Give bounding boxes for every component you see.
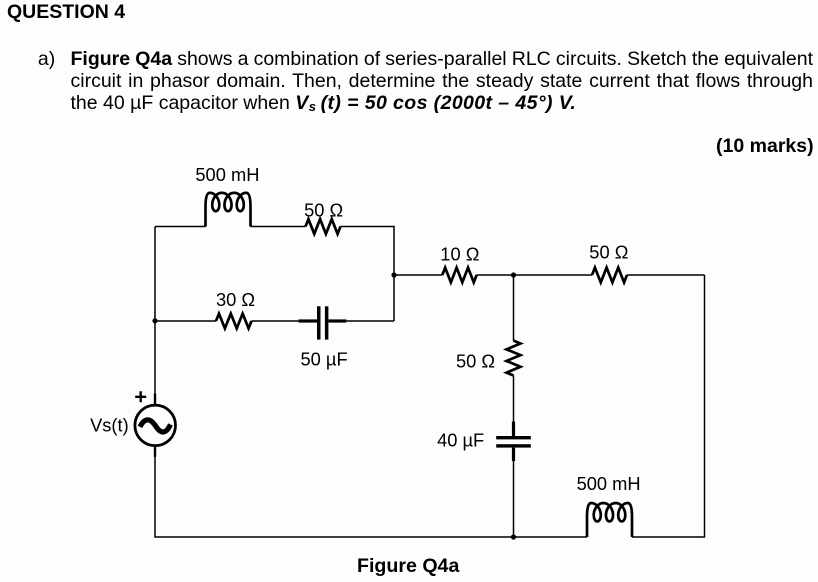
wire below 40uF capacitor to bottom node: [513, 461, 515, 537]
wire left vertical upper: [154, 227, 156, 406]
wire middle branch left: [155, 320, 216, 322]
svg-text:30 Ω: 30 Ω: [216, 289, 255, 310]
wire node B down to vertical resistor: [513, 275, 515, 341]
ac source Vs circle: [135, 405, 176, 446]
item letter a): [38, 48, 55, 70]
capacitor 40 uF plate bottom: [496, 444, 531, 447]
marks label: [716, 135, 814, 157]
svg-text:50 Ω: 50 Ω: [304, 200, 343, 221]
capacitor 40 uF lead top: [512, 422, 515, 437]
wire right top toward 50 ohm: [627, 274, 705, 276]
paragraph line 1: [71, 48, 814, 70]
wire left vertical lower and bottom left: [155, 446, 587, 537]
node A junction dot: [391, 272, 396, 277]
figure caption Figure Q4a: [357, 555, 459, 577]
paragraph line 2: [71, 70, 814, 92]
node D junction dot (bottom): [511, 534, 516, 539]
paragraph line 3: [71, 92, 577, 118]
wire 10 ohm to node A: [394, 274, 442, 276]
resistor 50 ohm top: [306, 219, 341, 234]
wire capacitor to right riser of middle branch: [346, 320, 394, 322]
capacitor 40 uF plate top: [496, 436, 531, 439]
ac source bottom lead tick: [154, 446, 156, 457]
resistor 30 ohm: [216, 314, 252, 329]
wire node B to 10 ohm: [477, 274, 514, 276]
capacitor 50 uF plate left: [317, 306, 321, 339]
inductor 500 mH top: [206, 193, 251, 227]
capacitor 50 uF plate right: [325, 306, 329, 339]
svg-text:Vs(t): Vs(t): [90, 414, 129, 435]
wire bottom right to right vertical up: [632, 275, 705, 537]
wire resistor to top-right corner and down to node: [341, 227, 395, 322]
inductor 500 mH bottom: [587, 503, 632, 537]
heading QUESTION 4: [7, 1, 125, 23]
svg-text:500 mH: 500 mH: [577, 473, 641, 494]
node C junction dot (left middle): [152, 318, 157, 323]
capacitor 50 uF lead left: [299, 319, 318, 322]
svg-text:50 Ω: 50 Ω: [589, 241, 628, 262]
wire top-left horizontal: [155, 226, 206, 228]
svg-text:10 Ω: 10 Ω: [440, 244, 479, 265]
resistor 50 ohm right: [592, 268, 627, 283]
svg-text:40 µF: 40 µF: [437, 429, 484, 450]
wire 30 ohm to capacitor: [252, 320, 299, 322]
svg-text:50 µF: 50 µF: [301, 348, 348, 369]
svg-text:50 Ω: 50 Ω: [456, 350, 495, 371]
capacitor 40 uF lead bottom: [512, 448, 515, 461]
wire vertical resistor to capacitor lead: [513, 376, 515, 422]
plus polarity sign: [135, 391, 146, 402]
wire 50 ohm to node B: [514, 274, 592, 276]
ac source top lead tick: [154, 394, 156, 406]
capacitor 50 uF lead right: [328, 319, 346, 322]
ac source sine wave: [140, 420, 171, 432]
svg-text:500 mH: 500 mH: [195, 164, 259, 185]
wire inductor to resistor: [251, 226, 306, 228]
resistor 10 ohm: [442, 268, 476, 283]
resistor 50 ohm vertical: [507, 341, 521, 376]
node B junction dot: [511, 272, 516, 277]
